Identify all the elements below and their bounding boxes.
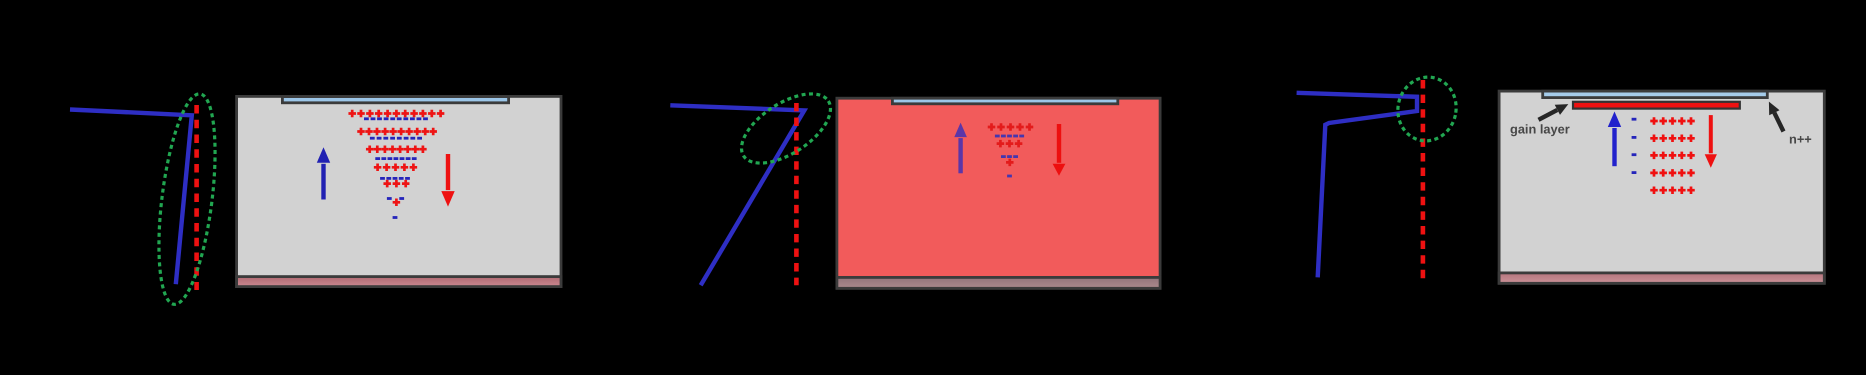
svg-text:gain layer: gain layer bbox=[1510, 122, 1570, 137]
panel 1 charge funnel row 2 (+) bbox=[357, 128, 437, 136]
panel 1 plot: blue signal curve bbox=[70, 110, 192, 285]
panel 1 charge funnel row 1 (-) bbox=[364, 117, 428, 120]
panel 3 electron column (-) bbox=[1632, 118, 1637, 174]
panel 1 charge funnel row 4 (-) bbox=[380, 177, 410, 180]
panel 1 charge funnel tip (+) bbox=[393, 199, 401, 207]
panel 3 plot: red dashed bias line bbox=[1421, 80, 1426, 278]
panel 1 plot: green dashed ellipse highlight bbox=[149, 91, 225, 308]
panel 2 purple up arrow (electrons) bbox=[954, 123, 967, 174]
panel 1 charge funnel row 4 (+) bbox=[374, 164, 417, 172]
panel 2 bottom electrode (muted rose strip) bbox=[837, 277, 1160, 288]
panel 2 plot: blue signal curve bbox=[670, 105, 804, 285]
panel 3 hole row 1 (+) bbox=[1650, 117, 1695, 125]
panel 1 sensor bulk box bbox=[237, 96, 561, 286]
panel 1 charge funnel row 5 (+) bbox=[383, 180, 409, 188]
panel 3 hole row 4 (+) bbox=[1650, 169, 1695, 177]
panel 3 plot: green dashed ellipse highlight bbox=[1392, 72, 1462, 147]
panel 2 charge funnel row 2 (-) bbox=[1001, 155, 1018, 158]
panel 3 gain layer pointer arrow bbox=[1539, 104, 1569, 120]
panel 3 hole row 2 (+) bbox=[1650, 135, 1695, 143]
panel 1 top electrode (light blue bar) bbox=[282, 97, 508, 103]
panel 3 gain layer (red bar) bbox=[1573, 102, 1740, 109]
panel 3 n++ pointer arrow bbox=[1769, 102, 1784, 132]
panel 1 charge funnel tip (-) bbox=[393, 216, 398, 219]
panel 1 charge funnel row 3 (-) bbox=[375, 157, 416, 160]
panel 2 charge funnel row 1 (-) bbox=[995, 135, 1024, 138]
panel 3 bottom electrode (rose strip) bbox=[1499, 273, 1824, 283]
panel 3 top electrode n++ (light blue bar) bbox=[1543, 91, 1768, 98]
panel 1 plot: red dashed bias line bbox=[194, 105, 199, 290]
panel 1 red down arrow (holes) bbox=[441, 154, 454, 207]
panel 2 charge funnel row 2 (+) bbox=[997, 140, 1023, 148]
panel 2 red down arrow (holes) bbox=[1053, 124, 1066, 176]
panel 3 LGAD bulk box bbox=[1499, 91, 1824, 283]
panel 3 red down arrow (holes) bbox=[1705, 115, 1717, 168]
panel 2 sensor bulk box (fully depleted, red) bbox=[837, 98, 1160, 288]
panel 1 charge funnel row 3 (+) bbox=[366, 145, 427, 153]
panel 3 blue up arrow (electrons) bbox=[1608, 112, 1621, 167]
panel 2 plot: red dashed bias line bbox=[794, 103, 799, 285]
panel 1 blue up arrow (electrons) bbox=[317, 147, 330, 199]
panel 3 plot: blue signal curve bbox=[1297, 93, 1417, 278]
panel 1 charge funnel row 5 (-) bbox=[387, 197, 404, 200]
panel 2 top electrode (light blue bar) bbox=[892, 98, 1117, 104]
panel 3 hole row 5 (+) bbox=[1650, 186, 1695, 194]
panel 2 plot: green dashed ellipse highlight bbox=[730, 80, 842, 177]
panel 3 hole row 3 (+) bbox=[1650, 152, 1695, 160]
panel 2 charge funnel tip (-) bbox=[1007, 175, 1012, 178]
panel 2 charge funnel row 1 (+) bbox=[988, 123, 1034, 131]
svg-text:n++: n++ bbox=[1789, 132, 1812, 147]
panel 2 charge funnel tip (+) bbox=[1006, 159, 1014, 167]
panel 1 charge funnel row 2 (-) bbox=[370, 137, 422, 140]
panel 1 bottom electrode (rose strip) bbox=[237, 277, 561, 287]
panel 1 charge funnel row 1 (+) bbox=[348, 110, 444, 118]
